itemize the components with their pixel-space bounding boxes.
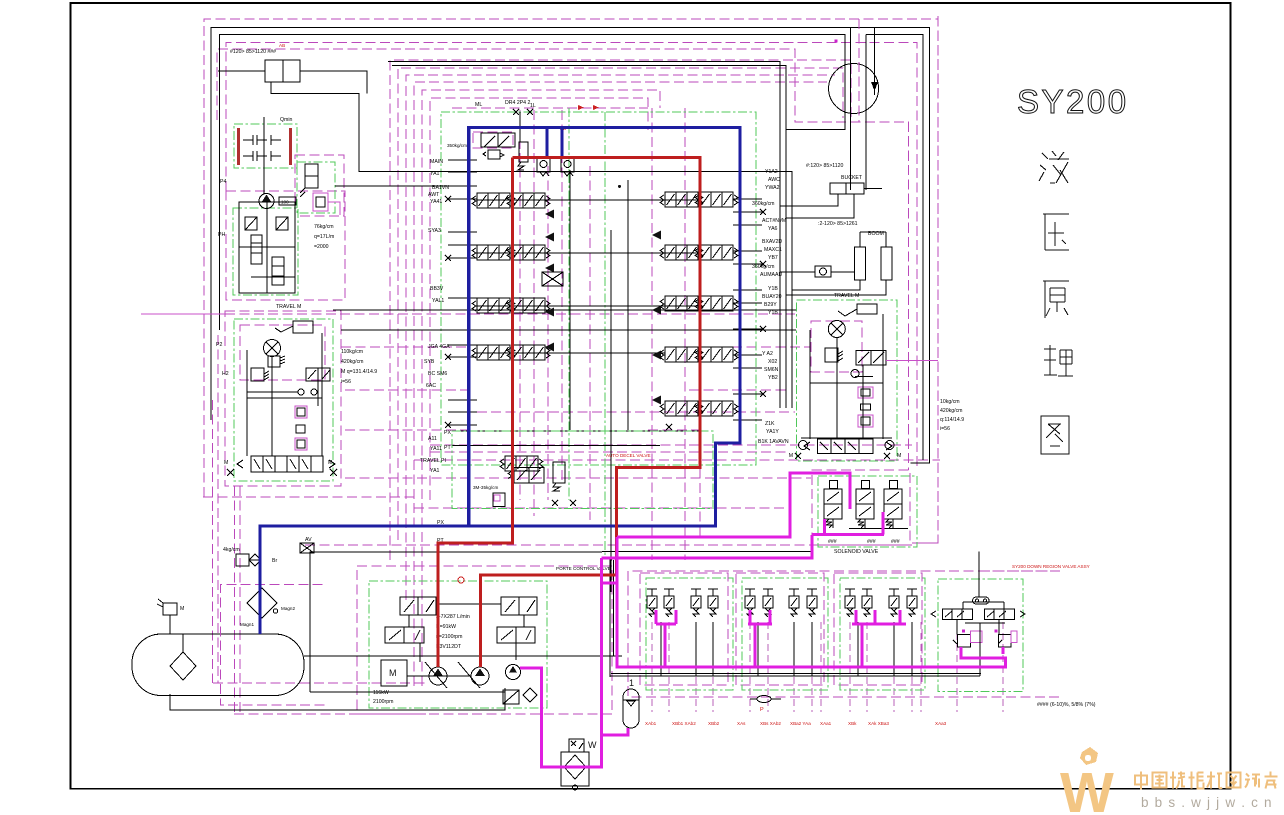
pump motor box (381, 660, 407, 686)
svg-text:SY200: SY200 (1017, 83, 1129, 120)
svg-text:116kW: 116kW (373, 690, 389, 696)
svg-text:2100rpm: 2100rpm (373, 699, 393, 705)
svg-text:SY200 DOWN REGION VALVE ASSY: SY200 DOWN REGION VALVE ASSY (1012, 564, 1090, 569)
magenta dashed nest v3 (217, 49, 909, 470)
outer magenta dashed box (204, 19, 938, 543)
left group bottom X marks (227, 469, 337, 476)
travel-right motor circle R (885, 441, 894, 450)
svg-text:XAb1: XAb1 (645, 721, 657, 726)
pilot manifold wiring (266, 202, 268, 293)
magenta to solenoid feed (617, 473, 850, 537)
shuttle bottom (757, 696, 771, 703)
pilot group4 links (956, 619, 958, 634)
right spool row 3 (660, 296, 703, 311)
blue main supply line (260, 128, 740, 635)
right spool row 5 (660, 401, 703, 416)
svg-text:AB: AB (279, 43, 285, 48)
travel-left motor (264, 340, 281, 357)
auto idle relief small (493, 493, 505, 507)
right spool row 1 (660, 192, 703, 207)
svg-text:M: M (328, 460, 332, 466)
svg-text:YAL1: YAL1 (432, 298, 444, 304)
magenta dashed box travel-left (225, 311, 341, 486)
travel-right small v3 (858, 415, 873, 427)
svg-text:XAs: XAs (737, 721, 746, 726)
magenta dashed pilot group2 box (736, 573, 824, 685)
title char yuan (principle-1) (1043, 281, 1069, 318)
magenta dashed nest n5 (422, 90, 660, 686)
svg-text:420kg/cm: 420kg/cm (341, 359, 364, 365)
travel-right brake valve (818, 439, 874, 453)
magenta dashed h460 (414, 459, 940, 461)
pump swash arrows (425, 662, 480, 688)
svg-text:Br: Br (272, 558, 277, 564)
red pump1 line (438, 158, 512, 668)
swing dashed vertical (858, 19, 860, 122)
pilot group1 valves (647, 589, 657, 617)
left spool row 3 (472, 298, 515, 313)
magenta dashed pilot group3 box (834, 573, 922, 685)
svg-text:Y1B: Y1B (768, 286, 778, 292)
magenta thin links misc (141, 313, 225, 315)
arm cylinder hose 2 (300, 71, 367, 94)
svg-text:76kg/cm: 76kg/cm (314, 224, 334, 230)
svg-text:420kg/cm: 420kg/cm (940, 408, 963, 414)
oil cooler diamond (564, 755, 586, 779)
svg-text:BUCKET: BUCKET (841, 175, 863, 181)
relief sub valve (488, 150, 500, 159)
svg-text:B1K 1AVAVN: B1K 1AVAVN (758, 439, 789, 445)
pilot group4 pedal valve (973, 597, 989, 604)
right spool row 4 (660, 347, 703, 362)
magenta P stub (602, 582, 618, 585)
svg-text:X02: X02 (768, 359, 777, 365)
svg-text:M: M (224, 460, 228, 466)
boom cylinder hoses (792, 280, 860, 290)
travel-right motor circle L (799, 441, 808, 450)
svg-text:ACT#N#M: ACT#N#M (762, 218, 786, 224)
top rail 2b (866, 34, 923, 460)
magenta junction dots (835, 40, 838, 43)
svg-text:AUTO DECEL VALVE: AUTO DECEL VALVE (606, 453, 651, 458)
magenta dashed h478 (345, 477, 811, 479)
magenta dashed nest n2 (398, 68, 843, 540)
pilot manifold valve 1 (251, 235, 262, 264)
magenta dashed col c (547, 166, 549, 500)
left port ticks (448, 159, 477, 161)
svg-text:YB7: YB7 (768, 255, 778, 261)
main pump box bottom (310, 691, 505, 693)
svg-text:XBs XAb2: XBs XAb2 (760, 721, 781, 726)
svg-text:SM6N: SM6N (764, 367, 779, 373)
tank breather (163, 603, 177, 615)
pilot manifold relief 2 (276, 217, 288, 230)
svg-text:SOLENOID VALVE: SOLENOID VALVE (834, 549, 879, 555)
magenta dashed h497 (203, 496, 414, 498)
travel crossover line (333, 309, 796, 311)
left spool row 4 (472, 345, 515, 360)
title char tu (diagram) (1041, 416, 1069, 454)
svg-text:360kg/cm: 360kg/cm (752, 201, 775, 207)
svg-text:1: 1 (629, 678, 634, 688)
magenta dashed h314 (225, 313, 795, 315)
svg-text:JGA 4GA: JGA 4GA (428, 344, 450, 350)
svg-text:M: M (389, 668, 397, 678)
svg-text:YA1: YA1 (430, 171, 440, 177)
magenta group1 feed (656, 624, 665, 667)
svg-text:BUAY20: BUAY20 (762, 294, 782, 300)
svg-text:YA1Y: YA1Y (766, 429, 779, 435)
svg-text:PX: PX (444, 430, 451, 436)
magenta dashed col f (651, 108, 653, 560)
svg-text:TRAVEL M: TRAVEL M (834, 293, 859, 299)
svg-text:XBk: XBk (848, 721, 857, 726)
travel-left small v2 (296, 425, 305, 433)
G4 riser (978, 552, 980, 598)
svg-text:Qmin: Qmin (280, 117, 293, 123)
magenta dashed box 2 (226, 43, 917, 470)
svg-text:2-7X287 L/min: 2-7X287 L/min (436, 614, 470, 620)
svg-text:BB3V: BB3V (430, 286, 444, 292)
svg-text:M q=131.4/14.9: M q=131.4/14.9 (341, 369, 377, 375)
svg-text:###: ### (828, 539, 837, 545)
pump inner links (419, 643, 421, 662)
P4 sub valve (313, 193, 328, 211)
svg-text:4kg/cm: 4kg/cm (223, 547, 240, 553)
main valve center lines (569, 170, 571, 430)
svg-text:Y A2: Y A2 (762, 351, 773, 357)
magenta dashed box travel-right inner (811, 321, 862, 372)
radiator hatch left (237, 128, 240, 165)
magenta group2 feed (748, 624, 755, 667)
svg-text:YA6: YA6 (768, 226, 778, 232)
magenta dashed col b (533, 110, 535, 516)
travel-right small v1 (858, 387, 873, 398)
svg-text:=2000: =2000 (314, 244, 329, 250)
right spool row 2 (660, 245, 703, 260)
pressure switch (569, 739, 584, 752)
magenta dashed pilot area big box (628, 571, 1060, 697)
blue stub 1 (545, 129, 548, 157)
magenta dashed h543 right (912, 542, 938, 544)
svg-text:YWA2: YWA2 (765, 185, 780, 191)
magenta dashed right col a (908, 122, 910, 470)
svg-text:#### (6-10)%, 5/8% (7%): #### (6-10)%, 5/8% (7%) (1037, 702, 1096, 708)
port X marks top (513, 109, 533, 115)
magnet filter diamond (247, 588, 277, 618)
travel-right relief (825, 348, 838, 362)
travel-right x marks (795, 453, 890, 459)
swing drain line (873, 28, 875, 96)
arm cylinder hose (271, 82, 792, 408)
svg-text:AWT: AWT (428, 192, 440, 198)
title char li (principle-2) (1044, 345, 1073, 376)
svg-text:DR4 2P4 2: DR4 2P4 2 (505, 100, 530, 106)
svg-text::2-120> 85>1261: :2-120> 85>1261 (818, 221, 858, 227)
svg-text:ML: ML (475, 102, 482, 108)
pilot pump circle (259, 194, 274, 209)
magenta dashed h347 (341, 346, 470, 348)
green box radiator (234, 124, 297, 168)
svg-text:A11: A11 (428, 436, 437, 442)
swing feed line 2 (865, 34, 867, 190)
pilot group2 valves (745, 589, 755, 617)
svg-text:XAa1: XAa1 (820, 721, 832, 726)
svg-text:B29Y: B29Y (764, 302, 777, 308)
magenta dashed h390 (345, 389, 470, 391)
top relief pair (481, 133, 498, 147)
magenta dashed lower-left cols (233, 486, 235, 714)
pilot group4 boxes (958, 634, 971, 647)
auto idle x marks (552, 424, 672, 506)
blue stub 2 (560, 129, 563, 157)
svg-text:MAIN: MAIN (430, 159, 443, 165)
PX PT black rails (452, 430, 700, 432)
svg-text:BXAV2D: BXAV2D (762, 239, 782, 245)
svg-text:PH: PH (218, 232, 225, 238)
arm cylinder rod line (218, 70, 265, 72)
magenta dashed box P4 valve (295, 155, 344, 216)
solenoid valve 3 (884, 481, 902, 528)
svg-text:TRAVEL M: TRAVEL M (276, 304, 301, 310)
svg-text:110kg/cm: 110kg/cm (341, 349, 363, 355)
remote ctrl black outline (610, 560, 612, 677)
pilot drop dashes (651, 622, 653, 712)
svg-text:SYB: SYB (424, 359, 435, 365)
magenta dashed right col b (937, 16, 939, 543)
svg-text:P: P (760, 707, 764, 713)
main valve check arrows left (545, 210, 554, 219)
bucket cylinder (830, 183, 864, 194)
pilot filter diamond (523, 688, 537, 702)
watermark chinese text (1135, 772, 1147, 790)
right port X marks (760, 209, 766, 215)
magenta dashed pilot group1 box (640, 573, 728, 685)
svg-text:BC SM6: BC SM6 (428, 371, 447, 377)
pilot manifold relief 1 (245, 217, 257, 230)
svg-text:3M-35kg/cm: 3M-35kg/cm (473, 485, 498, 490)
accumulator (623, 689, 639, 728)
svg-text:Z1K: Z1K (765, 421, 775, 427)
magenta dashed h545 (305, 544, 912, 546)
pilot group black drains (660, 622, 662, 676)
travel-left brake valve (251, 456, 323, 472)
travel-left small v3 (295, 438, 307, 450)
swing motor circle (829, 64, 879, 114)
travel-left pump box (268, 356, 280, 367)
pilot pump small (506, 665, 521, 680)
svg-text:XBb2: XBb2 (708, 721, 720, 726)
svg-text:XAa3: XAa3 (935, 721, 947, 726)
tiny red arrows top (578, 105, 599, 110)
auto idle unloader (553, 462, 565, 483)
magenta dashed h571 stub (980, 570, 1060, 572)
title char ya (pressure) (1043, 214, 1069, 250)
radiator hatch right (289, 128, 292, 165)
magenta dashed box 2b (217, 335, 219, 683)
green box pilot group3 (840, 578, 925, 690)
travel-right cyl link (838, 309, 857, 316)
black rail y551 (602, 551, 812, 553)
svg-text:b b s . w j j w . c n: b b s . w j j w . c n (1141, 795, 1273, 810)
tank area dashed box (221, 585, 325, 706)
svg-text:P2: P2 (216, 342, 222, 348)
pump valve right upper (501, 597, 537, 615)
unloading valve (519, 142, 528, 162)
magenta dashed col g (684, 108, 686, 560)
travel-right counterbalance (856, 351, 871, 365)
svg-text:AWC: AWC (768, 177, 780, 183)
magenta dashed inner top (430, 98, 648, 500)
magenta solenoid bottom rail (812, 533, 884, 536)
magenta dashed box pump-left group (226, 191, 345, 300)
solenoid valve 2 (856, 481, 874, 528)
travel-left cylinder (293, 321, 313, 333)
magenta dashed nest n3 (406, 75, 835, 600)
svg-text:YA1: YA1 (430, 468, 440, 474)
svg-text:#120> 85>1120 ###: #120> 85>1120 ### (230, 49, 276, 55)
svg-text:W: W (1060, 761, 1114, 815)
svg-text:M: M (789, 453, 793, 459)
bottom center spool (500, 456, 543, 471)
top small valves straight-travel (537, 157, 550, 172)
travel-left shuttle circles (298, 389, 304, 395)
svg-text:i=56: i=56 (341, 379, 351, 385)
black rail pilot groups (610, 675, 980, 677)
travel-left small v1 (295, 406, 307, 418)
green box main valve (441, 112, 756, 465)
svg-text:AV: AV (305, 537, 312, 543)
relief dashed box (473, 132, 513, 148)
radiator rows (243, 135, 281, 145)
magenta dashed h508 (414, 507, 790, 509)
svg-text:BA1VN: BA1VN (432, 185, 449, 191)
pump shaft (407, 675, 471, 677)
magenta dashed col e (589, 166, 591, 520)
auto idle solenoid valve (514, 468, 529, 484)
magenta accumulator link (602, 728, 629, 735)
pump1 circle (429, 667, 447, 685)
magenta travel-right link (886, 360, 938, 362)
svg-text:XAk XBa3: XAk XBa3 (868, 721, 889, 726)
green v-line mid (568, 108, 570, 500)
tank outline (132, 634, 304, 696)
travel crossover line 2 (341, 329, 796, 331)
main valve check arrows right (652, 231, 661, 240)
svg-text:SYA3: SYA3 (428, 228, 441, 234)
svg-text:10kg/cm: 10kg/cm (940, 399, 960, 405)
magenta dashed nest n4 (414, 82, 827, 686)
auto idle green box (452, 431, 713, 509)
pilot relief pre-tank (236, 554, 249, 566)
green box solenoid (818, 476, 917, 547)
magenta dashed col a (519, 110, 521, 500)
pilot relief box (503, 690, 519, 704)
svg-text:Magn2: Magn2 (281, 606, 295, 611)
title char ye (liquid) (1039, 151, 1069, 183)
breather spring (157, 599, 163, 607)
svg-text:AUMAAD: AUMAAD (760, 272, 782, 278)
svg-text:n=2100rpm: n=2100rpm (436, 634, 462, 640)
svg-text:YA41: YA41 (430, 199, 442, 205)
magenta dashed box solenoid valves (812, 470, 910, 545)
magenta dashed h714 (234, 713, 426, 715)
travel-left counterbalance (306, 368, 318, 381)
right port ticks (733, 198, 762, 200)
magenta dashed h683 (213, 682, 426, 684)
svg-text:Y1A2: Y1A2 (765, 169, 778, 175)
green box pilot group4 (938, 579, 1023, 692)
check symbol x307 (300, 543, 314, 553)
svg-text:XBb1 XAb2: XBb1 XAb2 (672, 721, 696, 726)
travel-right shuttle (851, 370, 873, 378)
top rail 2 (219, 34, 844, 330)
svg-text:M: M (897, 453, 901, 459)
main valve inner hlines (477, 199, 700, 201)
svg-text:PT: PT (444, 445, 451, 451)
svg-text:H2: H2 (222, 371, 229, 377)
green v-line 605 (604, 112, 606, 555)
magenta dashed nest n1 (390, 60, 851, 560)
svg-text:M: M (180, 606, 184, 612)
svg-text:360kg/cm: 360kg/cm (752, 264, 775, 270)
green box P4 (297, 162, 335, 213)
svg-text:TRAVEL PI: TRAVEL PI (420, 458, 446, 464)
green box pilot pump group (233, 208, 298, 295)
mid small valve (542, 272, 563, 286)
top rail 1 (211, 28, 930, 464)
svg-text:Magn1: Magn1 (240, 622, 254, 627)
arm cylinder (265, 60, 300, 82)
boom cylinders (855, 247, 866, 280)
pilot manifold box (239, 202, 295, 293)
pilot pump gauge (279, 197, 296, 205)
radiator link (263, 117, 265, 194)
pump2 circle (471, 667, 489, 685)
magenta group3 feed (852, 624, 862, 667)
tank filter diamond (170, 652, 196, 680)
magenta pilot supply main (520, 558, 602, 767)
svg-text:###: ### (891, 539, 900, 545)
green box pilot group1 (646, 578, 733, 690)
solenoid rail (849, 528, 908, 530)
svg-text:YB2: YB2 (768, 375, 778, 381)
svg-text:1L: 1L (530, 103, 536, 109)
pump regulator left (385, 627, 424, 643)
green box pilot group2 (742, 578, 828, 690)
P4 valve (305, 164, 318, 188)
main pump black box (310, 552, 602, 692)
magenta dashed inner travel-left (240, 325, 325, 380)
left spool row 2 (472, 245, 515, 260)
svg-text:###: ### (867, 539, 876, 545)
black rail pilot mid (611, 673, 981, 675)
magenta rail 558 (602, 535, 813, 558)
travel-left frame lines (246, 350, 248, 456)
svg-text:q:114/14.9: q:114/14.9 (940, 417, 964, 423)
oil cooler box (561, 752, 589, 786)
left spool row 1 (472, 193, 515, 208)
red pump2 line (481, 158, 701, 668)
suction line (170, 688, 505, 710)
travel-right cylinder (857, 304, 877, 314)
green box travel-left (234, 319, 333, 481)
svg-text:K3V112DT: K3V112DT (436, 644, 462, 650)
magenta dashed col h (699, 166, 701, 540)
pump regulator right (497, 627, 535, 643)
pump red mark (458, 577, 464, 583)
pilot manifold valve 2 (272, 257, 284, 285)
